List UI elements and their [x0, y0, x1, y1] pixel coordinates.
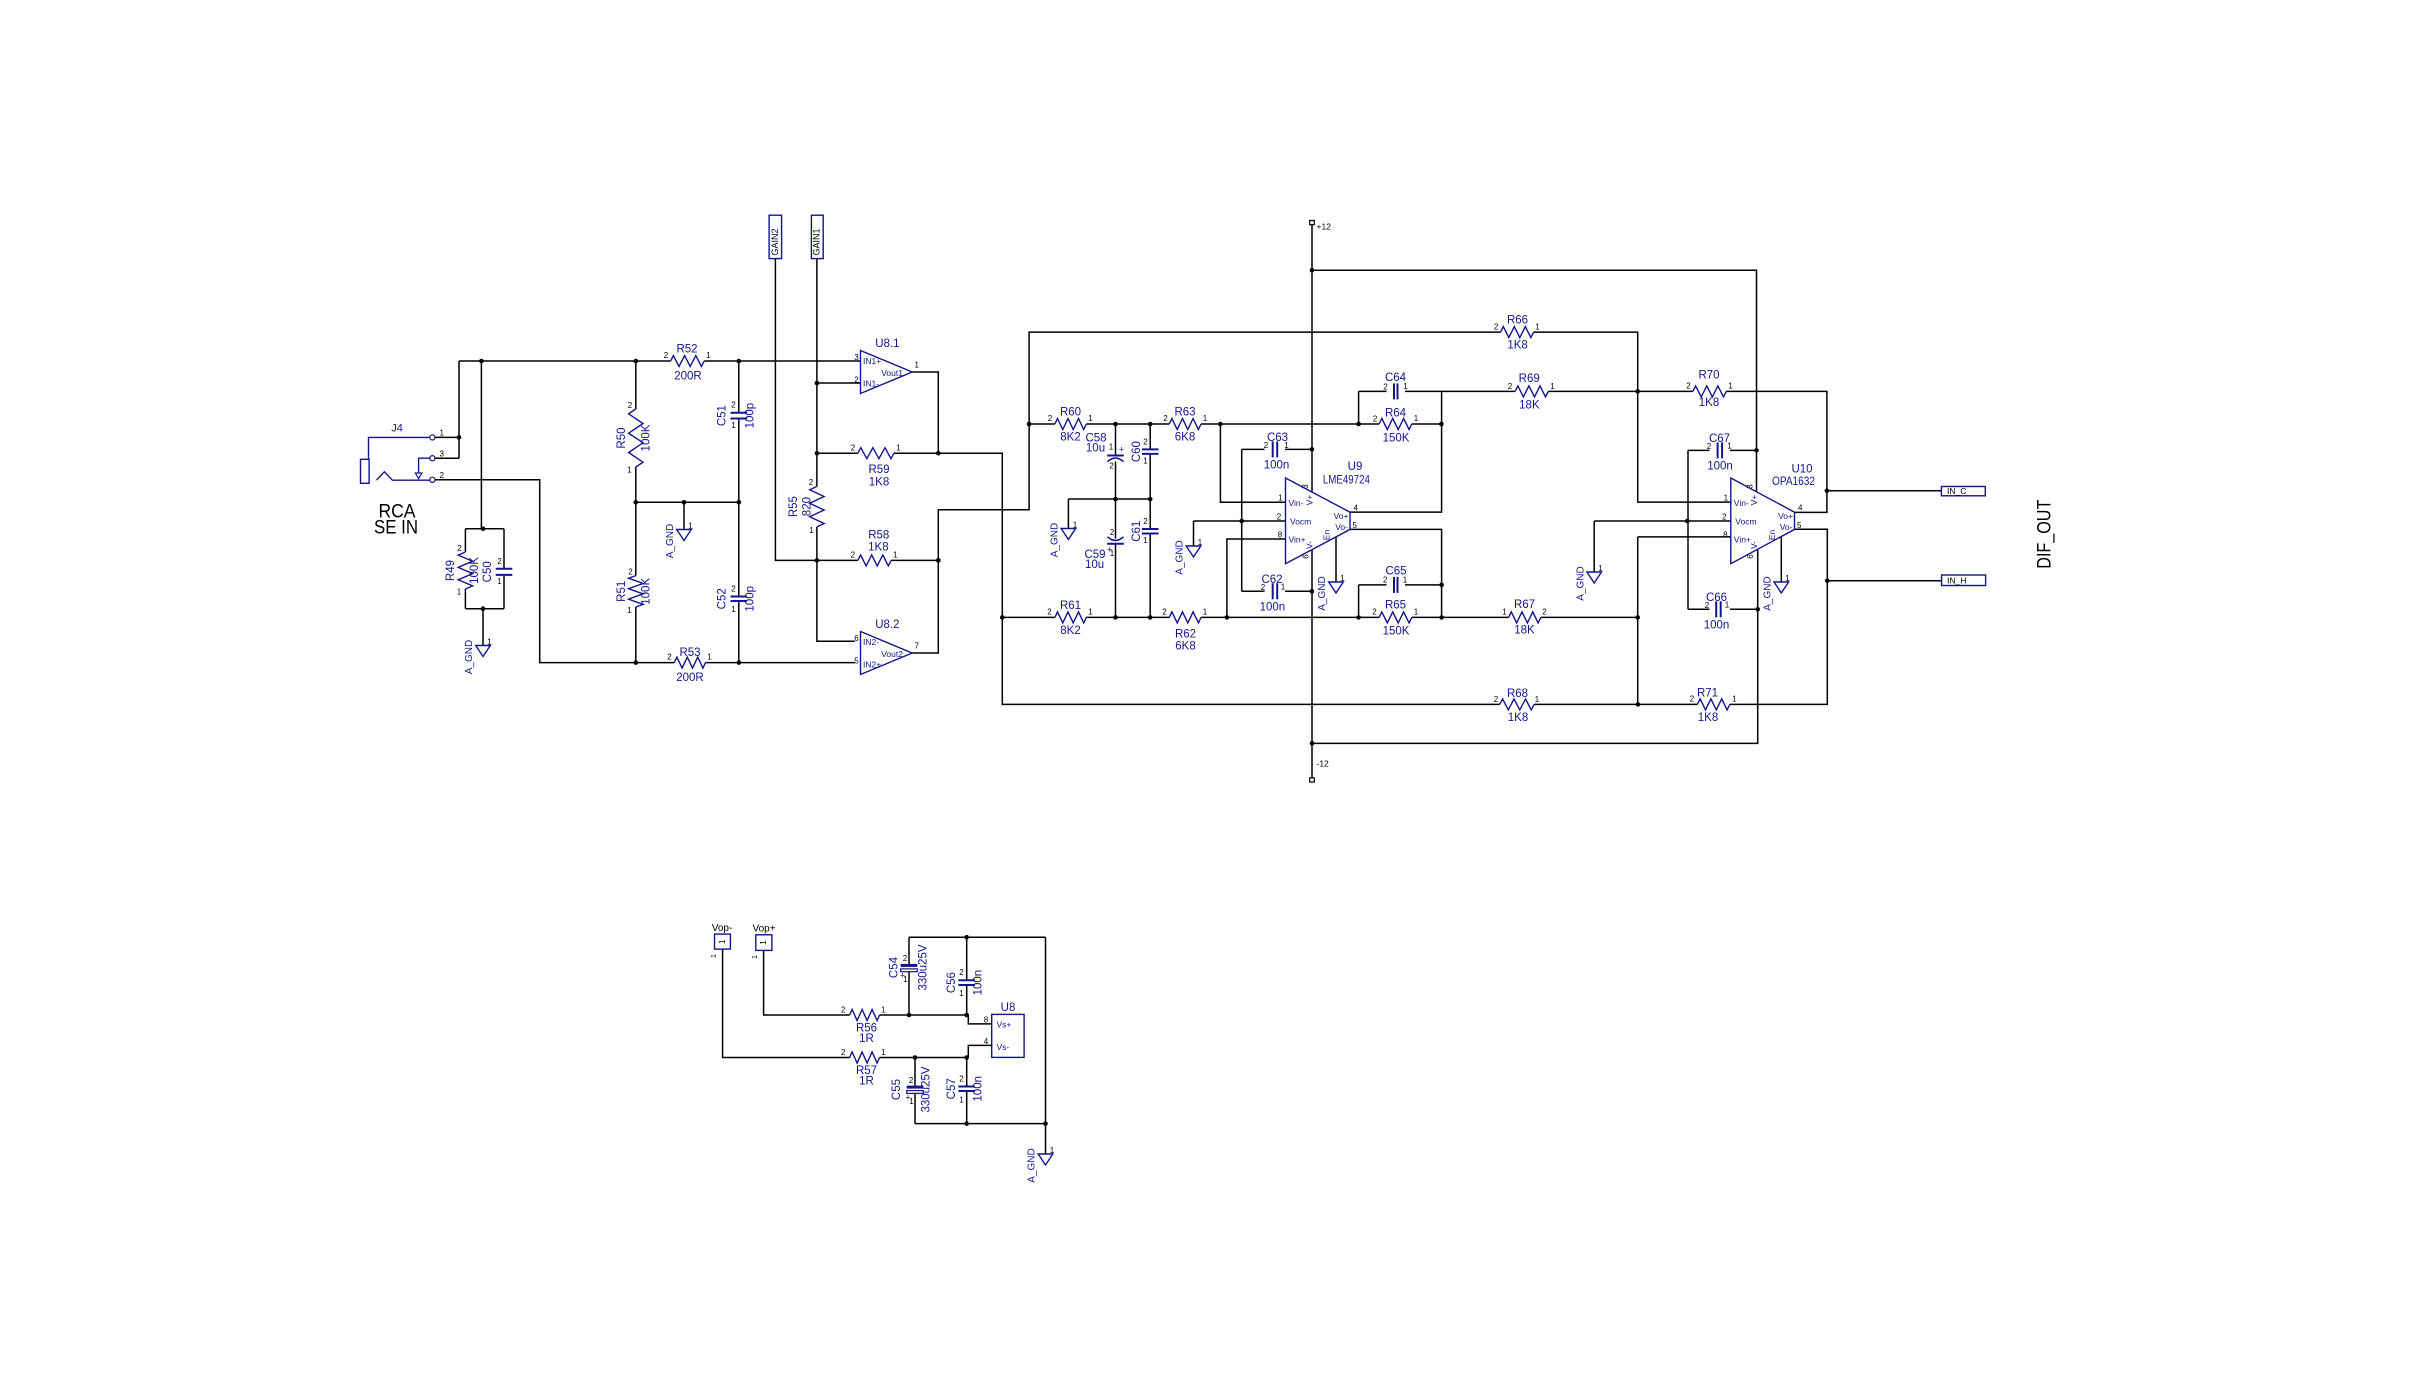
junction Vout1/R59 node	[936, 451, 941, 456]
junction row617 / Vo- column	[1439, 615, 1444, 620]
svg-text:1: 1	[1050, 1146, 1055, 1155]
wire C67 row left	[1688, 449, 1710, 451]
wire R62 pin1 to R65	[1201, 616, 1379, 618]
svg-text:C61: C61	[1131, 521, 1143, 542]
svg-text:2: 2	[1383, 383, 1388, 392]
wire C60 leads	[1149, 424, 1151, 499]
wire R57 pin1 row	[880, 1057, 967, 1059]
svg-text:1K8: 1K8	[868, 542, 888, 554]
wire U10 En stub	[1780, 536, 1782, 582]
wire R70 pin1 to Vo+ node	[1726, 391, 1827, 512]
svg-text:LME49724: LME49724	[1323, 475, 1371, 487]
op-amp U8.2	[854, 619, 919, 675]
wire C57 leads	[966, 1058, 968, 1124]
resistor R61 8K2	[1047, 600, 1093, 637]
svg-text:1: 1	[1403, 576, 1408, 585]
resistor R67 18K	[1502, 599, 1547, 637]
port GAIN2	[769, 215, 782, 258]
wire C51 leads	[738, 361, 740, 502]
svg-text:10u: 10u	[1085, 559, 1104, 571]
svg-text:330u25V: 330u25V	[918, 944, 930, 990]
svg-text:100p: 100p	[745, 403, 757, 429]
resistor R60 8K2	[1048, 407, 1094, 444]
junction +12 distribution	[1310, 268, 1315, 273]
svg-text:1: 1	[1725, 601, 1730, 610]
svg-text:1: 1	[627, 606, 632, 615]
wire R56 pin1 row	[880, 1014, 967, 1016]
svg-text:150K: 150K	[1383, 626, 1410, 638]
wire jack pin2 to R53 row	[435, 480, 674, 663]
svg-text:150K: 150K	[1383, 433, 1410, 445]
wire C63 row left	[1242, 448, 1265, 450]
wire U10 Vocm	[1594, 520, 1731, 522]
resistor R49 100K	[445, 544, 481, 597]
junction IN_C tap	[1825, 489, 1830, 494]
junction row617 / R66-R71 column	[1635, 615, 1640, 620]
capacitor C65	[1383, 566, 1408, 593]
resistor R71 1K8	[1690, 688, 1737, 725]
svg-text:2: 2	[731, 401, 736, 410]
wire C67 row right	[1730, 449, 1757, 451]
svg-text:1: 1	[487, 638, 492, 647]
wire R61 pin2 lead	[1002, 616, 1055, 618]
capacitor C64	[1383, 372, 1408, 399]
wire top rail PSU	[909, 936, 1046, 938]
junction A_GND row left	[634, 500, 639, 505]
capacitor C60	[1131, 438, 1159, 466]
svg-text:U8: U8	[1001, 1002, 1016, 1014]
capacitor C52 100p	[717, 585, 757, 615]
wire U9 Vocm	[1194, 520, 1286, 522]
wire R69 pin2 lead	[1441, 390, 1515, 392]
svg-text:+12: +12	[1317, 222, 1332, 232]
svg-text:R63: R63	[1174, 407, 1195, 419]
svg-text:100K: 100K	[641, 424, 653, 451]
resistor R66 1K8	[1494, 315, 1540, 352]
power flag -12	[1310, 759, 1329, 783]
wire R69 pin1 to R70	[1548, 390, 1693, 392]
svg-text:3: 3	[1745, 484, 1754, 489]
resistor R64 150K	[1373, 408, 1419, 445]
capacitor C59 10u	[1084, 528, 1123, 571]
svg-text:IN2-: IN2-	[863, 637, 879, 647]
svg-text:1: 1	[1785, 574, 1790, 583]
wire to IN1-	[817, 382, 861, 384]
wire GAIN1 to R59 row	[816, 383, 818, 453]
svg-text:U9: U9	[1348, 461, 1363, 473]
svg-text:R61: R61	[1060, 600, 1081, 612]
wire IN_C link	[1827, 490, 1942, 492]
svg-text:100n: 100n	[1704, 620, 1730, 632]
svg-text:U8.2: U8.2	[875, 619, 899, 631]
svg-text:330u25V: 330u25V	[921, 1066, 933, 1112]
capacitor C61	[1131, 517, 1159, 545]
ic U8 box	[984, 1002, 1024, 1057]
svg-text:1: 1	[881, 1006, 886, 1015]
svg-text:3: 3	[440, 450, 445, 459]
wire C64 left column	[1358, 391, 1360, 424]
wire U10 Vin+ feed	[1638, 536, 1731, 538]
ground A_GND U9 Vocm	[1175, 538, 1203, 575]
wire row A left segment	[459, 360, 671, 362]
junction R56 row / C56	[964, 1013, 969, 1018]
svg-text:+: +	[1119, 445, 1124, 455]
svg-text:200R: 200R	[674, 371, 702, 383]
junction row424 / C60 column	[1148, 422, 1153, 427]
svg-text:4: 4	[1354, 504, 1359, 513]
wire C65 left column	[1358, 585, 1360, 618]
wire C66 row left	[1688, 608, 1710, 610]
svg-text:R55: R55	[788, 496, 800, 517]
wire C62 row left	[1242, 590, 1265, 592]
wire GAIN2 net to R58	[775, 259, 857, 561]
svg-text:C54: C54	[889, 956, 901, 978]
resistor R69 18K	[1508, 373, 1556, 412]
svg-text:A_GND: A_GND	[665, 524, 676, 558]
svg-text:4: 4	[1798, 504, 1803, 513]
svg-text:2: 2	[909, 1076, 914, 1085]
wire R61-R62 row	[1086, 616, 1169, 618]
svg-text:2: 2	[1705, 601, 1710, 610]
svg-text:2: 2	[1707, 442, 1712, 451]
svg-text:2: 2	[841, 1048, 846, 1057]
svg-text:2: 2	[1542, 608, 1547, 617]
junction Vo- column / C65	[1439, 583, 1444, 588]
junction R56 row / C54	[907, 1013, 912, 1018]
svg-text:1: 1	[1414, 608, 1419, 617]
svg-text:1: 1	[1598, 564, 1603, 573]
svg-text:A_GND: A_GND	[1575, 566, 1586, 600]
ground A_GND below C50	[464, 638, 492, 675]
svg-text:1: 1	[1109, 443, 1114, 452]
svg-text:1: 1	[1198, 538, 1203, 547]
wire C58 bottom lead	[1115, 462, 1117, 500]
port Vop+ with stub	[750, 924, 850, 1016]
svg-text:820: 820	[802, 497, 814, 516]
wire C50 leads	[503, 529, 505, 609]
wire C56 leads	[966, 937, 968, 1015]
svg-text:1: 1	[706, 351, 711, 360]
svg-text:1: 1	[709, 954, 718, 958]
svg-text:R69: R69	[1519, 373, 1540, 385]
svg-text:Vs+: Vs+	[997, 1020, 1012, 1030]
wire U9 Vin+ feed	[1227, 539, 1286, 617]
label RCA SE IN	[374, 502, 418, 539]
svg-text:2: 2	[1383, 576, 1388, 585]
svg-text:Vin+: Vin+	[1289, 535, 1306, 545]
junction GAIN2/R55 bottom node	[815, 558, 820, 563]
svg-text:1: 1	[1203, 608, 1208, 617]
svg-text:1: 1	[707, 653, 712, 662]
svg-text:IN1+: IN1+	[863, 356, 881, 366]
svg-text:V+: V+	[1749, 495, 1759, 506]
svg-text:8K2: 8K2	[1060, 432, 1080, 444]
junction IN_H tap	[1825, 579, 1830, 584]
ground A_GND power section	[1027, 1146, 1055, 1183]
wire pin1/pin3 vertical	[458, 361, 460, 458]
svg-text:C51: C51	[717, 405, 729, 426]
svg-text:18K: 18K	[1519, 400, 1540, 412]
svg-text:Vop+: Vop+	[752, 924, 775, 935]
ground A_GND R50/R51 mid	[665, 522, 693, 559]
capacitor C57 100n	[946, 1075, 985, 1105]
svg-text:R53: R53	[679, 647, 700, 659]
svg-text:1R: 1R	[859, 1076, 874, 1088]
wire Vs+ jog	[967, 1015, 992, 1024]
svg-text:6: 6	[1301, 554, 1310, 559]
wire C52 leads	[738, 502, 740, 662]
svg-text:1K8: 1K8	[1507, 340, 1527, 352]
wire C59 top lead	[1115, 499, 1117, 539]
junction bottom rail / right column	[1043, 1121, 1048, 1126]
svg-text:A_GND: A_GND	[1763, 576, 1774, 610]
svg-text:2: 2	[1264, 441, 1269, 450]
svg-text:5: 5	[1353, 521, 1358, 530]
svg-text:Vin-: Vin-	[1734, 498, 1749, 508]
svg-text:2: 2	[841, 1006, 846, 1015]
junction mid row / C60 col	[1148, 497, 1153, 502]
junction row A / C51 column	[737, 359, 742, 364]
svg-text:1: 1	[1088, 414, 1093, 423]
wire mid A_GND stub	[1067, 499, 1069, 529]
junction GAIN1/R59	[815, 451, 820, 456]
wire C55 leads	[914, 1058, 916, 1124]
svg-text:1: 1	[717, 939, 727, 944]
svg-text:Vo-: Vo-	[1335, 522, 1348, 532]
label DIF_OUT	[2035, 499, 2056, 568]
svg-text:GAIN2: GAIN2	[770, 228, 780, 255]
svg-text:1: 1	[758, 940, 768, 945]
wire +12 distribution to U10 V+	[1312, 270, 1757, 492]
junction R49/C50 top	[481, 527, 486, 532]
svg-text:1: 1	[896, 444, 901, 453]
svg-text:+: +	[900, 971, 905, 981]
connector J4 RCA jack symbol	[361, 423, 445, 484]
svg-text:2: 2	[1690, 695, 1695, 704]
svg-text:2: 2	[628, 401, 633, 410]
svg-text:V-: V-	[1305, 541, 1315, 549]
svg-text:1: 1	[1088, 608, 1093, 617]
svg-text:C50: C50	[482, 561, 494, 582]
svg-text:100n: 100n	[1707, 461, 1733, 473]
svg-text:2: 2	[1261, 583, 1266, 592]
svg-text:SE IN: SE IN	[374, 518, 418, 539]
wire C63 row right	[1285, 448, 1312, 450]
wire R50 leads	[635, 361, 637, 502]
svg-text:18K: 18K	[1514, 625, 1535, 637]
svg-text:Vo+: Vo+	[1334, 511, 1349, 521]
svg-text:100K: 100K	[469, 557, 481, 584]
junction GAIN1/IN1-	[815, 381, 820, 386]
svg-text:3: 3	[1301, 484, 1310, 489]
svg-text:1: 1	[1284, 441, 1289, 450]
wire R60 pin2 lead	[1029, 423, 1055, 425]
svg-text:1: 1	[1143, 457, 1148, 466]
wire GAIN1 vertical	[816, 259, 818, 383]
wire right column PSU	[1045, 937, 1047, 1123]
svg-text:8K2: 8K2	[1060, 625, 1080, 637]
wire R65 pin1 lead	[1412, 616, 1442, 618]
svg-text:2: 2	[664, 351, 669, 360]
wire R68 pin1 to node	[1534, 703, 1697, 705]
svg-text:2: 2	[1722, 513, 1727, 522]
svg-text:En: En	[1322, 530, 1332, 541]
svg-text:R51: R51	[616, 581, 628, 602]
svg-text:3: 3	[854, 353, 859, 362]
svg-text:1: 1	[1535, 323, 1540, 332]
resistor R63 6K8	[1163, 407, 1208, 444]
svg-text:2: 2	[440, 471, 445, 480]
svg-text:2: 2	[731, 585, 736, 594]
junction C67 / V+ drop	[1754, 448, 1759, 453]
op-amp U8.1	[854, 338, 919, 394]
wire R63 pin1 to R64	[1201, 423, 1379, 425]
junction mid row / C58 col	[1113, 497, 1118, 502]
svg-text:2: 2	[1048, 414, 1053, 423]
svg-text:2: 2	[959, 1075, 964, 1084]
wire +12 rail to U9 V+	[1311, 225, 1313, 492]
svg-text:6K8: 6K8	[1175, 432, 1195, 444]
svg-text:A_GND: A_GND	[464, 640, 475, 674]
wire A_GND row	[636, 501, 739, 503]
svg-text:Vocm: Vocm	[1735, 517, 1756, 527]
svg-text:1: 1	[1502, 608, 1507, 617]
svg-text:10u: 10u	[1086, 443, 1105, 455]
svg-text:OPA1632: OPA1632	[1772, 476, 1815, 488]
wire Vout2 node	[912, 332, 1500, 653]
junction R49/C50 bottom	[481, 606, 486, 611]
wire R49/C50 top rail	[465, 528, 504, 530]
svg-text:1K8: 1K8	[869, 477, 889, 489]
svg-text:Vo+: Vo+	[1778, 511, 1793, 521]
wire R53 to IN2+	[706, 662, 855, 664]
wire C54 leads	[908, 937, 910, 1015]
svg-text:IN_C: IN_C	[1947, 486, 1966, 496]
svg-text:C55: C55	[891, 1079, 903, 1100]
junction R53 row / C52 column	[737, 660, 742, 665]
junction R57 row / C55	[913, 1055, 918, 1060]
junction R70 row / R66 column	[1635, 389, 1640, 394]
wire A_GND stub center	[683, 502, 685, 529]
svg-text:J4: J4	[391, 423, 403, 435]
svg-text:Vocm: Vocm	[1290, 517, 1311, 527]
resistor R50 100K	[616, 401, 653, 475]
svg-text:R59: R59	[868, 464, 889, 476]
svg-text:R60: R60	[1060, 407, 1081, 419]
svg-text:R52: R52	[676, 344, 697, 356]
svg-text:2: 2	[1047, 608, 1052, 617]
svg-text:1: 1	[1728, 382, 1733, 391]
svg-text:1: 1	[750, 955, 759, 959]
svg-text:1: 1	[959, 1096, 964, 1105]
wire Vo- U9 output	[1350, 529, 1442, 617]
svg-text:2: 2	[851, 444, 856, 453]
resistor R56 1R	[841, 1006, 886, 1046]
ground A_GND C58/C59 mid	[1050, 521, 1078, 558]
wire row A right segment to IN1+	[704, 360, 860, 362]
junction C66 / V- drop	[1755, 607, 1760, 612]
junction row424 / Vo+ column	[1439, 422, 1444, 427]
svg-text:100n: 100n	[973, 1076, 985, 1102]
svg-text:GAIN1: GAIN1	[811, 228, 821, 255]
wire R59 pin2 lead	[817, 452, 858, 454]
svg-text:R65: R65	[1385, 600, 1406, 612]
wire bottom rail PSU	[915, 1123, 1046, 1125]
resistor R65 150K	[1372, 600, 1419, 638]
svg-text:1: 1	[731, 605, 736, 614]
resistor R62 6K8	[1162, 608, 1208, 653]
op-amp U10 OPA1632	[1722, 464, 1815, 564]
wire C66 row right	[1730, 608, 1758, 610]
svg-text:2: 2	[667, 653, 672, 662]
svg-text:2: 2	[1373, 415, 1378, 424]
wire -12 distribution to U10 V-	[1312, 549, 1758, 743]
junction row617 / Vin+ column	[1225, 615, 1230, 620]
resistor R68 1K8	[1494, 688, 1540, 724]
capacitor C63 100n	[1264, 432, 1290, 472]
svg-text:2: 2	[1109, 462, 1114, 471]
junction row424 / C58 column	[1113, 422, 1118, 427]
wire mid A_GND row	[1068, 498, 1150, 500]
svg-text:1: 1	[1414, 414, 1419, 423]
svg-text:1: 1	[731, 421, 736, 430]
svg-text:1: 1	[1550, 382, 1555, 391]
svg-text:1: 1	[1143, 536, 1148, 545]
wire R59 pin1 to Vout1 node	[894, 452, 938, 454]
svg-text:2: 2	[1162, 608, 1167, 617]
svg-text:7: 7	[914, 642, 919, 651]
wire IN_H link	[1827, 580, 1941, 582]
port GAIN1	[811, 215, 823, 258]
junction Vocm / C63-C62 column	[1239, 519, 1244, 524]
wire R58 pin1 to node	[891, 559, 938, 561]
svg-text:R66: R66	[1507, 315, 1528, 327]
wire U9 V- to -12 flag	[1311, 550, 1313, 778]
svg-text:Vs-: Vs-	[997, 1042, 1010, 1052]
svg-text:R64: R64	[1385, 408, 1407, 420]
wire R67 pin2 to node column	[1541, 616, 1638, 618]
svg-text:R50: R50	[616, 427, 628, 448]
svg-text:6: 6	[1746, 554, 1755, 559]
wire R49 leads	[464, 529, 466, 609]
svg-text:A_GND: A_GND	[1027, 1148, 1038, 1182]
svg-text:5: 5	[1797, 521, 1802, 530]
wire R49/C50 bottom rail	[465, 608, 504, 610]
port IN_H	[1942, 575, 1986, 586]
svg-text:2: 2	[854, 376, 859, 385]
svg-text:Vo-: Vo-	[1780, 522, 1793, 532]
svg-text:A_GND: A_GND	[1175, 540, 1186, 574]
svg-text:1: 1	[881, 1048, 886, 1057]
node row A junction at x459	[457, 435, 462, 440]
svg-text:100K: 100K	[641, 578, 653, 605]
svg-text:2: 2	[1110, 528, 1115, 537]
svg-text:100n: 100n	[973, 970, 985, 996]
svg-text:R58: R58	[868, 530, 889, 542]
svg-text:1: 1	[1278, 494, 1283, 503]
svg-text:Vop-: Vop-	[712, 923, 733, 934]
junction row617 / C65 left column	[1356, 615, 1361, 620]
svg-text:V-: V-	[1749, 541, 1759, 549]
resistor R59 1K8	[851, 444, 902, 489]
svg-text:2: 2	[1686, 382, 1691, 391]
port Vop- with stub	[709, 923, 850, 1058]
svg-text:1: 1	[1340, 574, 1345, 583]
junction row A / C50 column	[479, 359, 484, 364]
svg-text:2: 2	[903, 954, 908, 963]
svg-text:1: 1	[809, 526, 814, 535]
junction row A / R50 column	[634, 359, 639, 364]
